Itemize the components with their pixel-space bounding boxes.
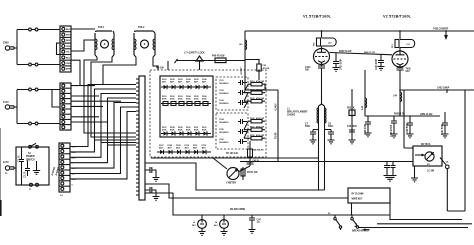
choke L43 bbox=[361, 70, 366, 116]
T2 secondary legs bbox=[103, 57, 158, 85]
capacitor C102 bbox=[219, 90, 247, 95]
svg-text:R53 1K: R53 1K bbox=[347, 108, 355, 110]
fuse F2 bbox=[29, 63, 60, 66]
diode row 2 bbox=[161, 131, 211, 135]
svg-text:470K: 470K bbox=[178, 98, 183, 101]
power switch box bbox=[16, 147, 49, 185]
svg-text:POWER: POWER bbox=[26, 156, 35, 158]
svg-text:100U/450V: 100U/450V bbox=[219, 121, 229, 124]
plug P3 117V bbox=[3, 160, 16, 175]
parasitic suppressor R50 L50 bbox=[314, 31, 337, 49]
svg-text:50U: 50U bbox=[305, 70, 309, 72]
svg-text:L7 4 SAFETY LOCK: L7 4 SAFETY LOCK bbox=[184, 52, 205, 55]
svg-text:GRN 15-242: GRN 15-242 bbox=[420, 113, 433, 116]
capacitor bank box B dashed bbox=[216, 113, 248, 149]
jack J3 bbox=[192, 215, 206, 235]
rectifier block solid outline bbox=[160, 76, 213, 137]
svg-text:V1 572B/T160L: V1 572B/T160L bbox=[303, 15, 332, 19]
wire grid choke line bbox=[400, 89, 474, 91]
wire grid link V1-V2 bbox=[330, 53, 393, 55]
transformer T2 bbox=[134, 26, 155, 57]
wire route L1 bbox=[145, 163, 325, 190]
svg-text:R44 4TA-2W: R44 4TA-2W bbox=[253, 149, 264, 152]
svg-text:470K: 470K bbox=[186, 129, 191, 132]
ground G2 bbox=[153, 197, 160, 201]
T1 secondary legs bbox=[84, 57, 112, 94]
ground G5 bbox=[378, 67, 385, 71]
node +2.4KV rail bbox=[239, 31, 278, 90]
svg-text:C420 300P: C420 300P bbox=[340, 58, 343, 70]
wire T1 legs to connector bbox=[84, 89, 136, 137]
wire choke legs down bbox=[319, 127, 325, 190]
svg-text:100U/450V: 100U/450V bbox=[219, 102, 229, 105]
wire plug2 riser bbox=[17, 90, 28, 124]
svg-text:BLU: BLU bbox=[66, 57, 71, 59]
svg-text:T433 CHOKER: T433 CHOKER bbox=[433, 28, 449, 31]
capacitor C436 bbox=[406, 116, 414, 138]
svg-text:RG-58/U WIRE: RG-58/U WIRE bbox=[230, 209, 246, 211]
capacitor C410 bbox=[305, 65, 325, 105]
diode row 3 bbox=[157, 150, 211, 154]
capacitor C2 bbox=[25, 161, 31, 179]
jumper TB2 bbox=[52, 90, 60, 108]
wire bus to connector taps bbox=[95, 140, 137, 145]
bleeder R115 bbox=[248, 97, 265, 103]
svg-text:BIFILAR FILAMENT: BIFILAR FILAMENT bbox=[287, 111, 308, 114]
svg-text:100U/450V: 100U/450V bbox=[219, 141, 229, 144]
svg-text:500U: 500U bbox=[305, 126, 311, 128]
svg-text:C436 500U: C436 500U bbox=[406, 122, 409, 134]
resistor row 2 labels bbox=[162, 127, 207, 132]
choke L44 on V2 cathode bbox=[393, 92, 402, 102]
svg-text:117V: 117V bbox=[3, 160, 9, 164]
wire TB3 exit stubs bbox=[70, 147, 80, 179]
plug P1 230V bbox=[3, 41, 17, 51]
wire plate line bbox=[245, 30, 474, 32]
svg-text:C437 500U: C437 500U bbox=[441, 123, 444, 135]
capacitor C106 bbox=[219, 139, 247, 144]
svg-text:C1 .01: C1 .01 bbox=[19, 155, 21, 162]
bifilar choke L1 bbox=[287, 104, 326, 127]
svg-text:100U/450V: 100U/450V bbox=[219, 131, 229, 134]
svg-text:C2 .01: C2 .01 bbox=[25, 171, 27, 178]
capacitor C430 bbox=[397, 67, 412, 116]
terminal strip TB2 bbox=[60, 83, 71, 130]
svg-text:ORN: ORN bbox=[66, 63, 71, 65]
svg-text:500U: 500U bbox=[328, 126, 334, 128]
choke T433 bbox=[433, 28, 449, 39]
jack J4 bbox=[214, 215, 228, 235]
wire TB1 to T1 bbox=[71, 29, 95, 86]
terminal strip TB3 bbox=[59, 143, 70, 197]
switch S3 break-in bbox=[351, 215, 370, 233]
wire long bus A bbox=[151, 157, 319, 159]
svg-text:TO RF: TO RF bbox=[275, 132, 277, 139]
capacitor C105 bbox=[219, 129, 247, 134]
wire route L3 bbox=[145, 193, 390, 215]
connector P8 bbox=[136, 76, 145, 200]
ground inside switch box bbox=[33, 161, 40, 174]
svg-text:R40 470-2W: R40 470-2W bbox=[212, 55, 225, 58]
svg-text:470K: 470K bbox=[162, 129, 167, 132]
capacitor C44 bbox=[249, 215, 262, 233]
svg-text:+2.4KV: +2.4KV bbox=[240, 67, 243, 75]
bleeder R118 bbox=[248, 134, 265, 140]
wire board top feed bbox=[167, 61, 169, 70]
jumper bracket TB1 bbox=[57, 43, 61, 54]
relay box RY1 wire key bbox=[348, 188, 472, 224]
resistor R45 bbox=[241, 167, 258, 180]
diode row 1 bbox=[161, 85, 211, 89]
svg-text:PC 100 CAL: PC 100 CAL bbox=[226, 152, 239, 155]
svg-text:470K: 470K bbox=[202, 98, 207, 101]
bleeder R113 bbox=[248, 80, 265, 90]
svg-text:T436: T436 bbox=[406, 68, 412, 71]
svg-text:230V: 230V bbox=[3, 41, 9, 45]
svg-text:C426 1000P: C426 1000P bbox=[390, 124, 393, 137]
ground bar T bbox=[411, 166, 418, 182]
capacitor C1 bbox=[19, 147, 25, 185]
capacitor C437 bbox=[441, 112, 449, 138]
transformer T1 bbox=[95, 26, 114, 57]
wire long bus B bbox=[240, 161, 413, 163]
svg-text:BLK: BLK bbox=[66, 29, 71, 31]
svg-text:RY 50 OHM: RY 50 OHM bbox=[352, 194, 364, 196]
capacitor C101 bbox=[219, 80, 247, 85]
svg-text:R426 4.7K: R426 4.7K bbox=[394, 112, 405, 115]
capacitor C103 bbox=[219, 100, 247, 105]
capacitor C104 bbox=[219, 118, 247, 124]
svg-text:R430 72-1W: R430 72-1W bbox=[364, 51, 375, 54]
svg-text:P8-100: P8-100 bbox=[156, 67, 164, 70]
resistor row 1 labels bbox=[162, 95, 208, 101]
wire bleeder zigzag bbox=[244, 84, 248, 138]
svg-text:100U/450V: 100U/450V bbox=[219, 92, 229, 95]
capacitor C46 pair bbox=[384, 162, 397, 182]
capacitor C31 bbox=[145, 187, 156, 197]
svg-text:470-2W: 470-2W bbox=[263, 67, 270, 70]
meter feed resistor R44 bbox=[247, 141, 264, 166]
ground G1 bbox=[153, 178, 160, 182]
capacitor C8 bbox=[325, 124, 335, 144]
PS-100 board dashed outline bbox=[150, 70, 266, 157]
meter M2 bbox=[213, 158, 250, 185]
svg-text:C410: C410 bbox=[305, 66, 311, 69]
wire TB2 stubs bbox=[71, 86, 121, 122]
wire bottom line bbox=[359, 227, 468, 229]
svg-text:C45 2U: C45 2U bbox=[253, 159, 260, 162]
svg-text:WIRE KEY: WIRE KEY bbox=[352, 199, 363, 201]
capacitor C7 bbox=[305, 124, 319, 144]
plug P2 117V bbox=[3, 100, 17, 109]
svg-text:470K: 470K bbox=[202, 129, 207, 132]
svg-text:C43 500U: C43 500U bbox=[347, 125, 357, 128]
fuse F5 bottom of box bbox=[29, 183, 39, 191]
svg-text:RY R1 5W: RY R1 5W bbox=[247, 172, 258, 174]
svg-text:CHOKE: CHOKE bbox=[287, 115, 296, 117]
capacitor C420b bbox=[375, 54, 384, 70]
svg-text:470K: 470K bbox=[178, 129, 183, 132]
tube V1 bbox=[314, 49, 330, 65]
node TO RF vertical bbox=[274, 90, 278, 162]
switch S1 bbox=[29, 143, 39, 148]
svg-text:C420 300P: C420 300P bbox=[375, 58, 378, 70]
svg-text:V METER: V METER bbox=[226, 183, 236, 185]
svg-text:ALC: ALC bbox=[214, 224, 219, 227]
svg-text:470K: 470K bbox=[194, 98, 199, 101]
switch S2 bbox=[328, 213, 342, 230]
svg-text:R429 72-1W: R429 72-1W bbox=[339, 50, 352, 53]
svg-text:+2.4KV: +2.4KV bbox=[274, 103, 277, 111]
fuse F4 bbox=[29, 122, 60, 125]
wire edge artifact bbox=[0, 200, 2, 216]
svg-text:T60-1: T60-1 bbox=[98, 26, 105, 29]
svg-text:GRN: GRN bbox=[66, 46, 71, 48]
capacitor C428 bbox=[364, 116, 372, 137]
terminal ANT bbox=[446, 165, 450, 169]
resistor R53 bbox=[347, 89, 357, 144]
TB3 voltage labels bbox=[72, 147, 78, 187]
svg-text:WHT: WHT bbox=[66, 35, 71, 37]
svg-text:470K: 470K bbox=[170, 98, 175, 101]
capacitor bank box A dashed bbox=[216, 77, 248, 110]
tube V2 bbox=[392, 51, 408, 67]
svg-text:100U/450V: 100U/450V bbox=[219, 82, 229, 85]
terminal strip TB1 bbox=[60, 26, 71, 72]
svg-text:V2 572B/T160L: V2 572B/T160L bbox=[383, 15, 412, 19]
svg-text:C452 1000P: C452 1000P bbox=[437, 86, 450, 89]
svg-text:50U: 50U bbox=[406, 71, 410, 73]
resistor R40 bbox=[212, 55, 226, 63]
svg-text:117V: 117V bbox=[3, 100, 9, 104]
fuse F1 bbox=[29, 28, 60, 31]
wire bias line bbox=[365, 115, 440, 117]
bleeder R116 bbox=[248, 117, 265, 123]
capacitor C420a bbox=[333, 53, 343, 70]
wire route L2 bbox=[145, 184, 348, 198]
resistor row 1 bbox=[161, 102, 211, 106]
diode row 1 labels bbox=[162, 78, 208, 84]
bleeder R114 bbox=[248, 89, 265, 95]
wire ant down bbox=[447, 90, 465, 211]
wire meter box feed bbox=[404, 90, 413, 148]
bleeder R117 bbox=[248, 126, 265, 132]
svg-text:BRN: BRN bbox=[66, 69, 71, 71]
svg-text:470K: 470K bbox=[186, 98, 191, 101]
resistor C60 dropper bbox=[245, 59, 269, 80]
parasitic suppressor R51 L51 bbox=[392, 31, 415, 51]
svg-text:T60-2: T60-2 bbox=[138, 26, 145, 29]
ground G4 bbox=[333, 68, 340, 72]
fuse F3 bbox=[29, 88, 60, 91]
svg-text:470K: 470K bbox=[162, 98, 167, 101]
svg-text:470K: 470K bbox=[170, 129, 175, 132]
wire staircase TB3 to bus bbox=[80, 85, 136, 147]
svg-text:LC-2W: LC-2W bbox=[427, 171, 435, 173]
capacitor C30 at connector bottom bbox=[145, 167, 156, 178]
safety lock S7 bbox=[175, 52, 246, 71]
wire plug1 riser bbox=[17, 30, 28, 65]
diode row 3 labels bbox=[159, 145, 207, 150]
capacitor C426 bbox=[390, 116, 398, 138]
meter box M1 bbox=[413, 143, 449, 166]
svg-text:RED: RED bbox=[66, 40, 71, 42]
svg-text:470K: 470K bbox=[194, 129, 199, 132]
